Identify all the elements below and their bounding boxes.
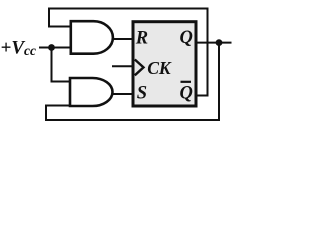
svg-text:R: R bbox=[135, 29, 148, 49]
svg-text:Q: Q bbox=[180, 28, 193, 48]
svg-text:Q: Q bbox=[180, 83, 193, 103]
svg-text:S: S bbox=[137, 84, 147, 104]
svg-text:CK: CK bbox=[147, 58, 172, 78]
